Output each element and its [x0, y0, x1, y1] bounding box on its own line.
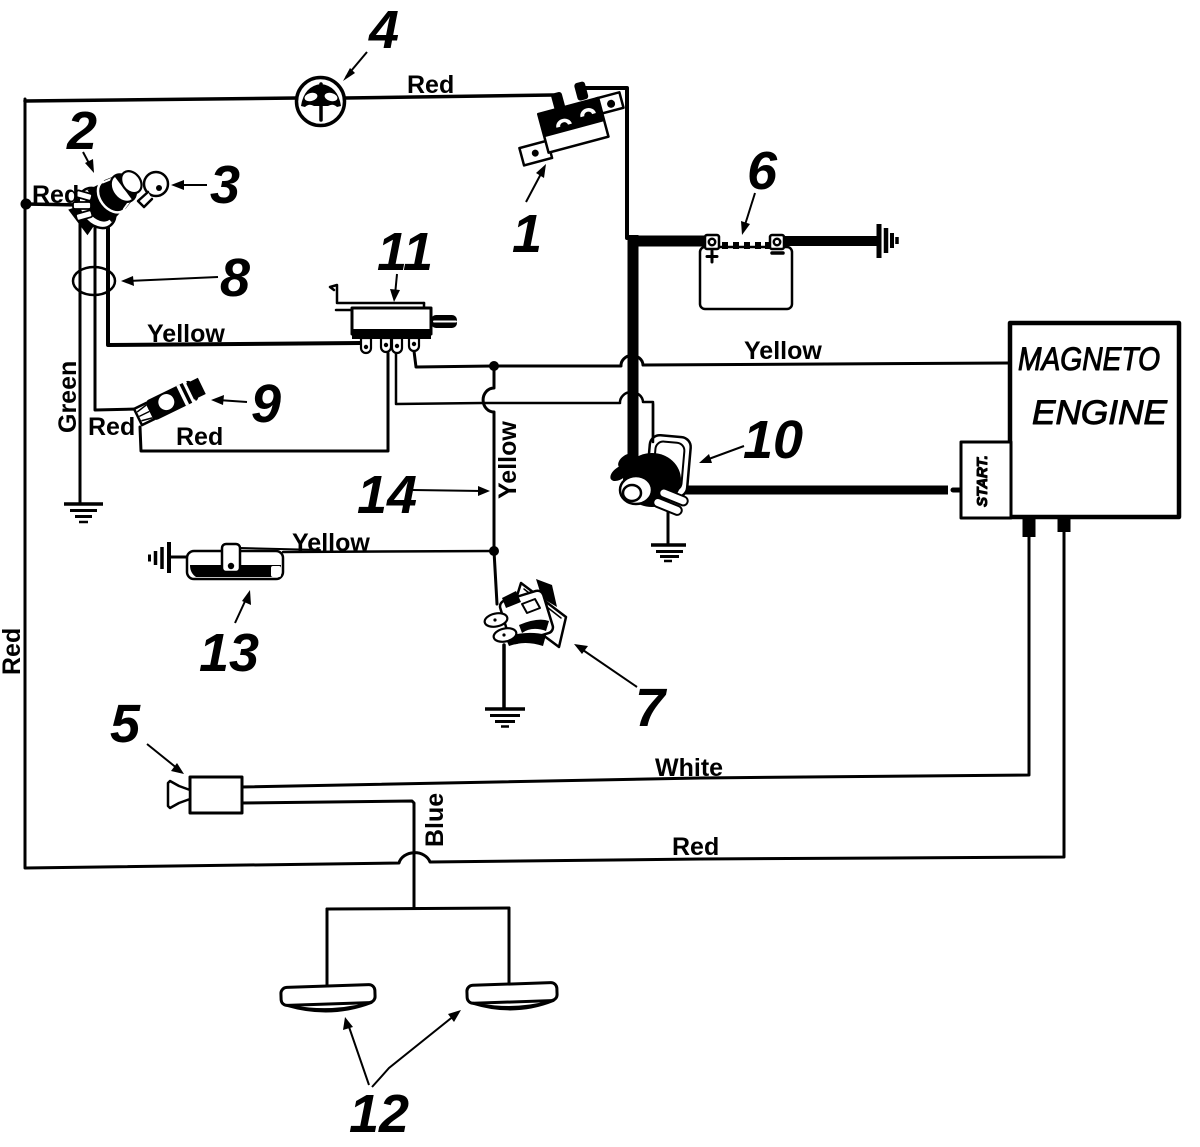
ground: fuse holder 13 ground (vertical bar style) — [150, 542, 170, 573]
interlock switch 11 (plunger switch with bracket and four spade terminals) — [330, 285, 457, 353]
svg-text:Red: Red — [88, 413, 135, 441]
ground: green wire ground (earth style) — [64, 504, 103, 522]
wire: white from light switch to magneto stub — [241, 537, 1029, 787]
wire: blue from light switch down to lamp harness — [241, 801, 414, 907]
callouts group — [66, 0, 803, 1144]
ignition switch 2 (keyed cylinder drawn in perspective) — [65, 159, 152, 240]
svg-text:2: 2 — [66, 101, 97, 161]
svg-text:Red: Red — [672, 833, 719, 861]
svg-text:Green: Green — [54, 361, 82, 433]
svg-text:11: 11 — [377, 222, 433, 282]
wire: right lamp drop — [508, 908, 511, 986]
wire: top red feed from left border to ammeter — [25, 98, 297, 101]
starter solenoid 10 — [608, 404, 692, 517]
svg-text:9: 9 — [251, 374, 281, 434]
lamp 12 right (headlight disc) — [467, 982, 558, 1010]
wire: magneto red stub (thick) — [1058, 516, 1071, 532]
wire: yellow from interlock terminal 4 to magneto (with hop over thick lead) — [414, 351, 1010, 367]
svg-text:14: 14 — [357, 465, 417, 525]
wire: vertical yellow drop with hop around crossing wire — [483, 366, 494, 546]
svg-text:4: 4 — [368, 0, 399, 60]
wire: green from ignition switch down to ground — [80, 208, 86, 503]
wire: thick starter cable from solenoid to START terminal — [683, 486, 948, 495]
ground: battery negative ground (vertical bar style) — [879, 224, 897, 258]
magneto engine box — [1010, 323, 1179, 517]
wire: red feed to ignition switch — [25, 204, 82, 205]
wire: safety switch 7 to ground — [502, 645, 506, 708]
wire: red bottom run from left border to magneto stub (hops over blue) — [25, 531, 1064, 868]
ground: safety switch ground (earth style) — [485, 709, 525, 727]
op: component group — [65, 73, 1179, 1013]
safety switch 7 (rocker switch in 3D with spade terminals) — [483, 579, 566, 647]
svg-text:12: 12 — [349, 1084, 409, 1144]
svg-text:13: 13 — [199, 623, 259, 683]
node: junction dot on left border at ignition feed — [21, 199, 32, 210]
svg-text:Yellow: Yellow — [292, 529, 370, 557]
wire: left lamp drop — [326, 909, 329, 988]
wire: magneto white stub (thick) — [1023, 516, 1036, 537]
ammeter 4 (gauge circle with pointer icon) — [297, 78, 345, 126]
svg-text:Red: Red — [0, 628, 26, 675]
wire: interlock terminal 3 to starter solenoid (hops over yellow and thick lead) — [396, 353, 653, 442]
node: junction dot yellow wire upper — [489, 361, 499, 371]
svg-text:6: 6 — [747, 141, 778, 201]
key 3 in ignition switch — [138, 172, 168, 207]
ground: starter solenoid ground (earth style) — [651, 545, 686, 561]
wire: lamp harness bar — [327, 908, 509, 909]
svg-text:Yellow: Yellow — [744, 337, 822, 365]
wire: thick battery positive lead vertical — [628, 235, 639, 464]
wire: yellow from ignition switch down and right to interlock switch — [104, 214, 361, 345]
svg-text:3: 3 — [210, 155, 240, 215]
svg-text:Blue: Blue — [421, 793, 449, 847]
svg-text:Yellow: Yellow — [147, 320, 225, 348]
wire: red from fuse 9 to interlock switch terminal 2 — [140, 353, 388, 451]
wire: thick lead to battery plus terminal — [628, 236, 707, 247]
wire: top red feed from ammeter to circuit breaker — [345, 95, 553, 98]
battery 6 — [700, 235, 793, 309]
circuit breaker 1 (3D body with two posts and mounting tabs) — [507, 73, 631, 165]
svg-text:Yellow: Yellow — [494, 421, 522, 499]
wire: fuse holder 13 to its ground — [170, 556, 190, 559]
svg-text:White: White — [655, 754, 723, 782]
svg-text:7: 7 — [635, 678, 668, 738]
start terminal box — [961, 442, 1011, 518]
svg-text:Red: Red — [176, 423, 223, 451]
grommet 8 (ellipse around harness wires) — [73, 267, 115, 295]
light switch 5 (push-pull switch with knob) — [168, 777, 242, 813]
svg-text:START.: START. — [974, 455, 991, 507]
fuse 9 (inline fuse drawn diagonally) — [133, 375, 207, 428]
node: junction dot yellow wire lower — [489, 546, 499, 556]
svg-text:Red: Red — [32, 181, 79, 209]
wire: red from ignition switch down to fuse 9 — [95, 212, 137, 410]
lamp 12 left (headlight disc) — [281, 984, 376, 1012]
svg-text:5: 5 — [110, 694, 141, 754]
svg-text:1: 1 — [512, 204, 542, 264]
wire: yellow from fuse holder 13 to junction — [283, 551, 494, 552]
svg-text:MAGNETO: MAGNETO — [1018, 341, 1160, 377]
svg-text:ENGINE: ENGINE — [1032, 394, 1167, 432]
svg-text:10: 10 — [743, 410, 803, 470]
wire: starter solenoid ground lead — [667, 506, 670, 545]
wire: vertical yellow continues to safety switch 7 — [494, 551, 497, 604]
svg-text:8: 8 — [220, 248, 250, 308]
wire: thick battery negative lead to ground — [783, 236, 877, 246]
wire: breaker output to vertical drop — [584, 88, 627, 238]
wire: left border vertical (red) — [24, 99, 27, 867]
labels group — [0, 71, 822, 861]
svg-text:Red: Red — [407, 71, 454, 99]
fuse holder 13 (inline fuse with clip, half black) — [187, 544, 320, 579]
